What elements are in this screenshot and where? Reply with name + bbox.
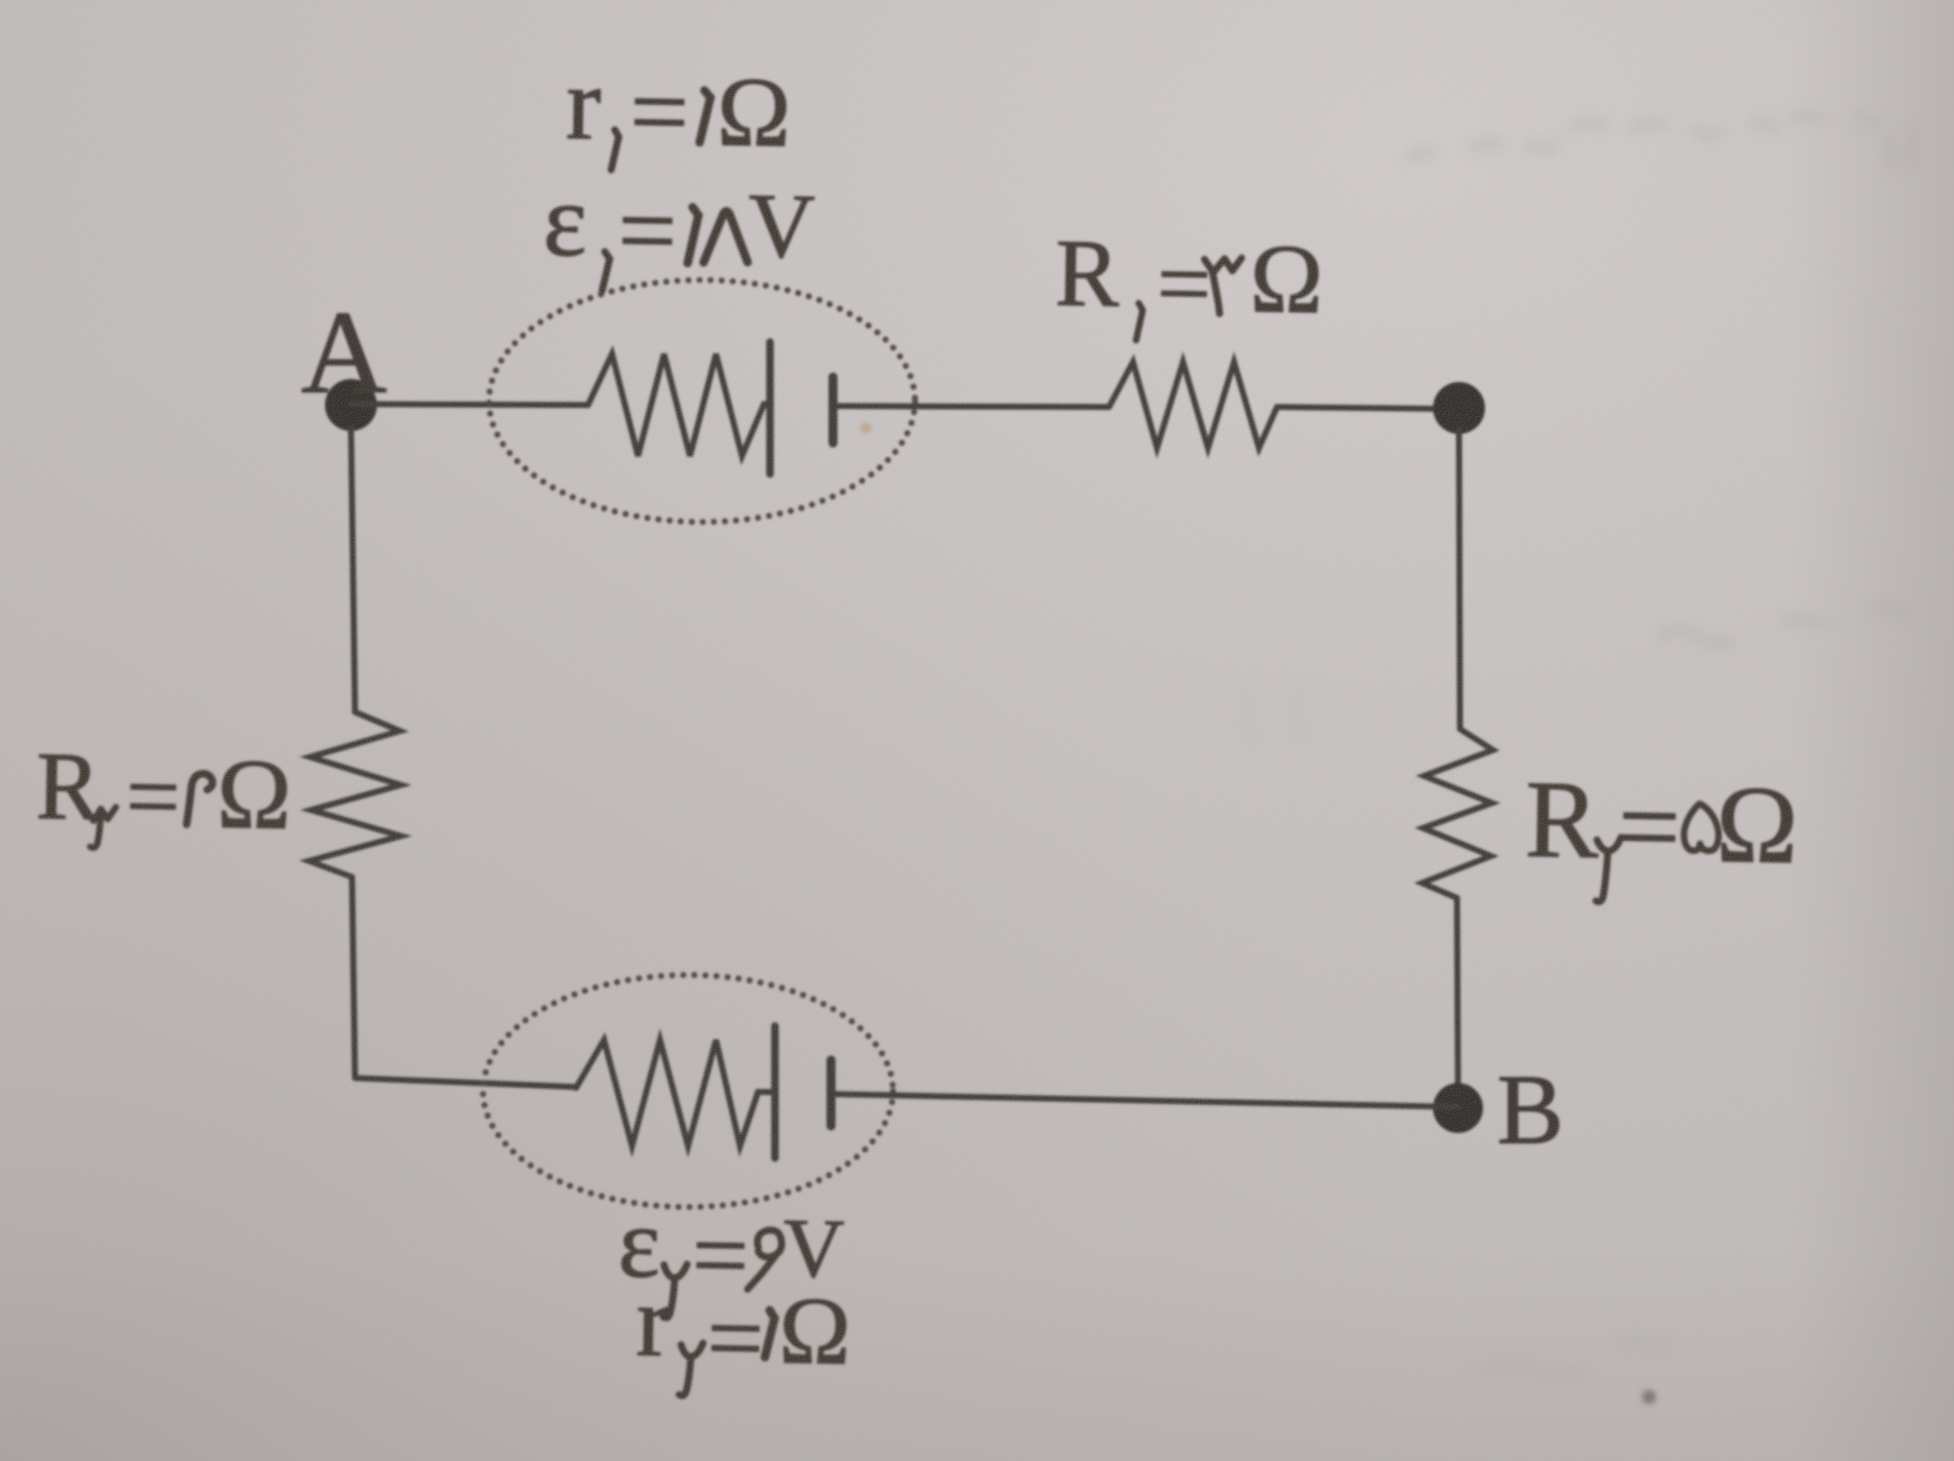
wire node A down to resistor R3 [351, 428, 355, 712]
label epsilon1 = 18 V [542, 163, 816, 295]
label r2 = 1 ohm [635, 1265, 852, 1399]
top-right junction node [1433, 382, 1485, 434]
wire top-right node down to resistor R2 [1459, 430, 1460, 729]
battery 1 dotted boundary [489, 280, 915, 522]
wire resistor R2 to node B [1457, 898, 1458, 1086]
wire node A to battery 1 [351, 404, 588, 405]
label R1 = 3 ohm [1054, 219, 1324, 344]
node B [1433, 1083, 1483, 1133]
battery cell E2 long plate [771, 1026, 779, 1158]
wire resistor R1 to top-right node [1277, 407, 1459, 409]
battery 2 dotted boundary [483, 975, 893, 1207]
battery cell E1 short plate [829, 377, 838, 443]
battery cell E2 short plate [827, 1060, 836, 1126]
label R2 = 5 ohm [1524, 758, 1799, 906]
resistor R1 zigzag [1109, 362, 1277, 448]
resistor R2 zigzag [1422, 729, 1493, 898]
node A [325, 379, 377, 431]
resistor R3 zigzag [309, 712, 401, 877]
battery cell E1 long plate [766, 342, 774, 474]
label R3 = 2 ohm [35, 732, 292, 852]
internal resistance r2 zigzag [576, 1040, 775, 1146]
internal resistance r1 zigzag [588, 354, 770, 456]
wire battery 1 to resistor R1 [833, 406, 1109, 407]
label r1 = 1 ohm [565, 46, 792, 173]
label epsilon2 = 6 V [617, 1187, 845, 1321]
wire resistor R3 to bottom-left corner and to battery 2 [352, 877, 576, 1087]
wire battery 2 to node B [831, 1094, 1458, 1107]
